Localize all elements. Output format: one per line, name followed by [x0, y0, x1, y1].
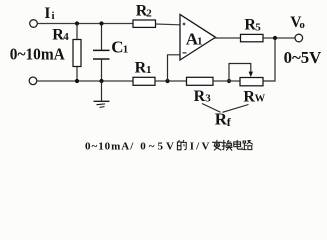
- caption hanzi DIAN (电): [234, 140, 242, 149]
- input terminal bottom-left circle: [29, 77, 37, 85]
- svg-text:4: 4: [63, 31, 69, 43]
- label R3: [194, 88, 212, 105]
- ground: [94, 81, 110, 107]
- wire node A to op-amp inverting input: [168, 55, 181, 81]
- resistor R3: [187, 77, 214, 85]
- op-amp noninverting marker +: [183, 23, 186, 26]
- label A1: [186, 30, 203, 49]
- svg-text:5: 5: [255, 21, 261, 33]
- junction C1 top: [99, 21, 103, 25]
- label Rf: [215, 109, 232, 129]
- svg-text:R: R: [194, 88, 206, 105]
- wire R1 to node A: [155, 80, 187, 82]
- resistor R2: [133, 20, 156, 27]
- caption hanzi BIAN (变): [213, 140, 222, 150]
- caption hanzi DE (的): [177, 141, 186, 150]
- label Vo: [290, 14, 305, 31]
- resistor R1: [133, 77, 155, 85]
- label R2: [136, 3, 153, 20]
- svg-text:0~5V: 0~5V: [284, 48, 322, 67]
- caption hanzi HUAN (换): [222, 140, 232, 150]
- brace line left (R3 to Rf): [202, 104, 221, 113]
- svg-text:1: 1: [123, 44, 129, 56]
- label R5: [244, 17, 261, 34]
- svg-text:3: 3: [205, 93, 211, 105]
- junction R4 top: [75, 21, 79, 25]
- svg-text:1: 1: [197, 36, 203, 48]
- op-amp inverting marker -: [183, 52, 187, 54]
- wire RW to feedback riser: [263, 38, 275, 81]
- svg-text:I: I: [44, 5, 50, 22]
- label Ii: [44, 5, 54, 22]
- svg-text:2: 2: [146, 8, 152, 20]
- wire R3 node to RW: [213, 80, 240, 82]
- svg-text:i: i: [52, 10, 55, 22]
- svg-text:R: R: [135, 60, 147, 77]
- junction R4 bottom: [75, 79, 79, 83]
- svg-text:0~10mA/: 0~10mA/: [85, 140, 134, 152]
- label C1: [111, 38, 128, 57]
- potentiometer RW body: [240, 78, 263, 86]
- svg-text:1: 1: [146, 64, 152, 76]
- resistor R4: [73, 24, 81, 82]
- output terminal Vo circle: [295, 34, 303, 42]
- capacitor C1: [93, 24, 110, 82]
- brace line right (RW to Rf): [223, 105, 249, 113]
- junction C1 bottom / ground node: [99, 79, 103, 83]
- op-amp A1: [180, 15, 216, 61]
- label R4: [52, 26, 69, 43]
- svg-text:W: W: [255, 94, 266, 105]
- svg-text:R: R: [243, 89, 255, 106]
- svg-text:0~5V: 0~5V: [140, 140, 174, 152]
- svg-text:0~10mA: 0~10mA: [10, 45, 66, 64]
- junction node A (inverting net): [165, 79, 169, 83]
- potentiometer RW wiper: [229, 64, 253, 82]
- caption hanzi LU (路): [243, 141, 253, 150]
- junction R3-RW node: [227, 79, 231, 83]
- svg-text:o: o: [299, 19, 305, 31]
- junction feedback node (output): [273, 36, 277, 40]
- wire R2 to op-amp + input: [156, 23, 181, 26]
- wire bottom rail (terminal to R1): [37, 80, 133, 82]
- label RW: [243, 89, 265, 106]
- label R1: [135, 60, 152, 77]
- wire top rail (input to R2): [37, 23, 133, 25]
- input terminal Ii (top-left circle): [30, 20, 38, 28]
- resistor R5: [241, 34, 264, 41]
- wire op-amp output rail: [215, 37, 296, 39]
